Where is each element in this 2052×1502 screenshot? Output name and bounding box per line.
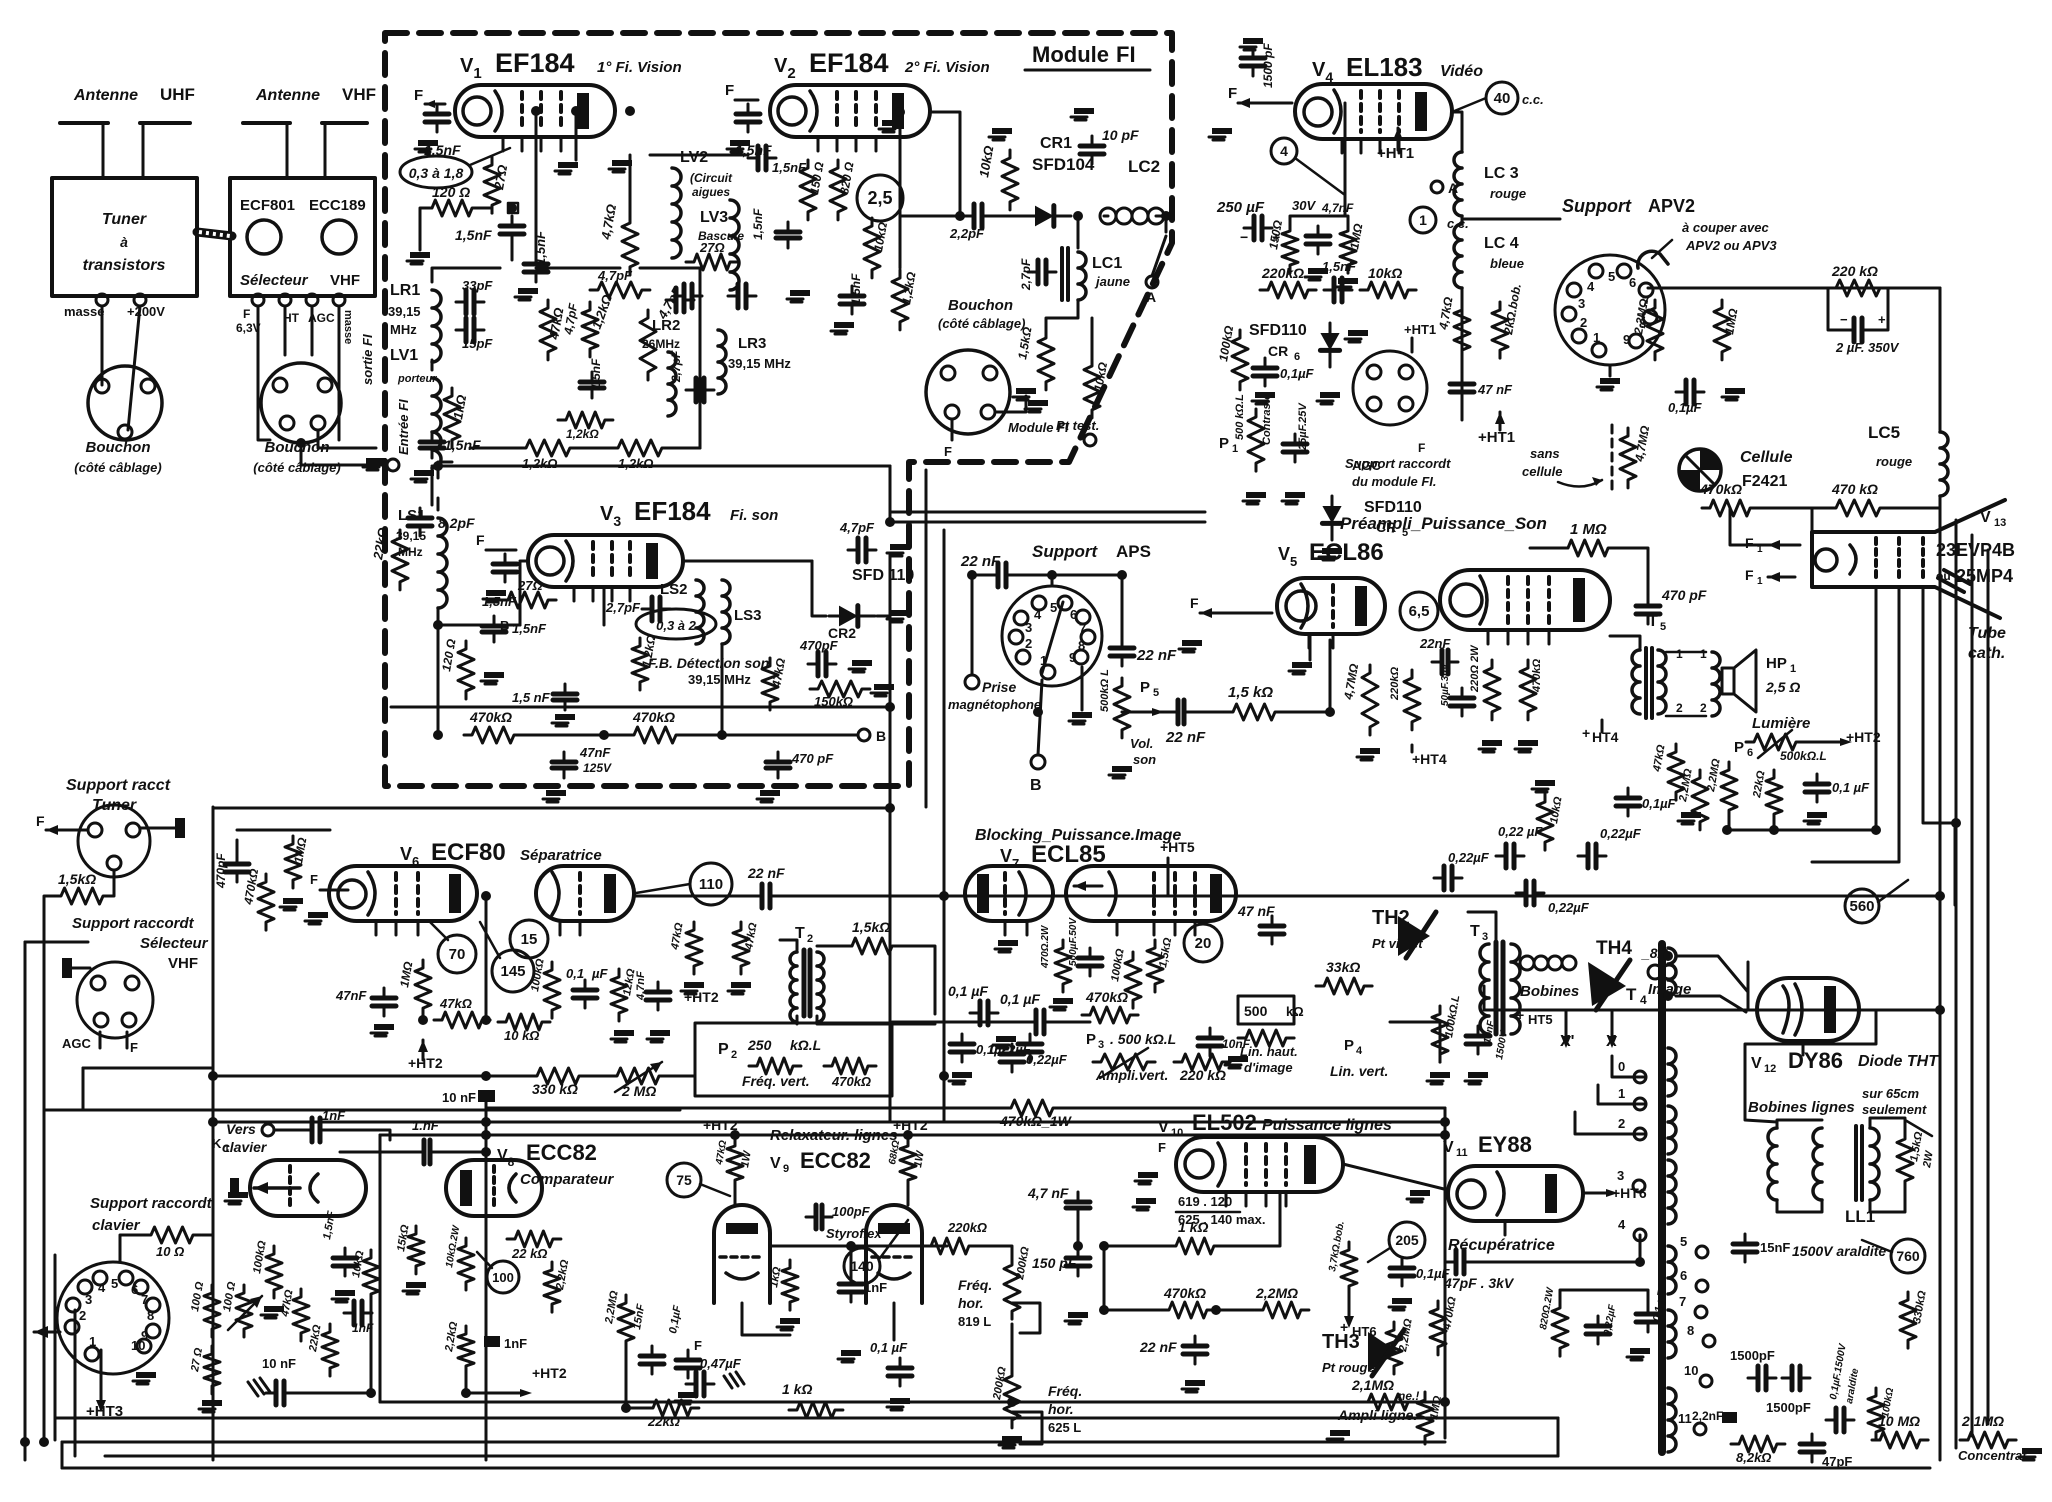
svg-text:son: son	[1133, 752, 1156, 767]
svg-text:220kΩ: 220kΩ	[1261, 265, 1304, 281]
socket selecteur VHF	[77, 962, 153, 1038]
resistor 47k lum	[1668, 744, 1684, 800]
ground P4	[1430, 1072, 1450, 1078]
junction dot 3	[481, 1071, 491, 1081]
resistor 8,2k	[1731, 1436, 1785, 1452]
capacitor 47nF V6	[383, 988, 386, 1016]
ground 1M V4	[1338, 278, 1358, 284]
ground CR5	[1322, 548, 1342, 554]
capacitor 0,1uF t5	[1627, 788, 1630, 816]
wire vert 55	[54, 1255, 57, 1440]
wire bmf gnd	[997, 396, 1026, 412]
junction dot 19	[1161, 211, 1171, 221]
svg-text:+HT2: +HT2	[1846, 729, 1881, 745]
diode CR5	[1322, 496, 1341, 540]
wire LC5 down	[1939, 496, 1942, 520]
value circle 145	[492, 950, 534, 992]
svg-text:P: P	[718, 1041, 729, 1058]
svg-text:6: 6	[1747, 747, 1753, 759]
svg-text:47pF . 3kV: 47pF . 3kV	[1443, 1275, 1515, 1291]
svg-text:1,5 nF: 1,5 nF	[512, 690, 551, 705]
value circle 65	[1400, 592, 1438, 630]
capacitor 1500pF a	[1748, 1377, 1776, 1380]
svg-text:8: 8	[147, 1308, 154, 1323]
resistor 470kohm b	[626, 727, 684, 743]
resistor 27ohm V3	[500, 592, 556, 608]
wire to 1k	[1104, 1245, 1168, 1248]
speaker HP1	[1722, 668, 1734, 694]
capacitor 1,5nF k3	[493, 616, 496, 642]
svg-text:ECC82: ECC82	[800, 1148, 871, 1173]
svg-text:magnétophone: magnétophone	[948, 697, 1041, 712]
resistor 10k 2W	[458, 1238, 474, 1290]
svg-text:6: 6	[1629, 275, 1636, 290]
wire bottom bus 1442	[62, 1441, 1445, 1444]
svg-text:sur 65cm: sur 65cm	[1862, 1086, 1920, 1101]
wire styroflex down	[850, 1246, 853, 1276]
wire 1076 left	[213, 1075, 529, 1078]
svg-text:2 MΩ: 2 MΩ	[621, 1083, 656, 1099]
svg-text:V: V	[1443, 1139, 1454, 1156]
capacitor 0,1uF T4	[1647, 1304, 1650, 1332]
svg-text:aigues: aigues	[692, 185, 730, 199]
junction dot 38	[1635, 1257, 1645, 1267]
junction dot 50	[1935, 891, 1945, 901]
socket support APS	[1002, 586, 1102, 686]
thyristor TH3	[1368, 1332, 1398, 1372]
junction dot 14	[531, 106, 541, 116]
svg-text:1 kΩ: 1 kΩ	[1178, 1219, 1208, 1235]
svg-text:25µF.25V: 25µF.25V	[1297, 402, 1309, 451]
svg-text:+HT5: +HT5	[1160, 839, 1195, 855]
junction dot 41	[1440, 1397, 1450, 1407]
ground T4 cluster	[1630, 1348, 1650, 1354]
svg-text:LC5: LC5	[1868, 423, 1900, 442]
svg-text:500kΩ.L: 500kΩ.L	[1780, 749, 1827, 763]
junction dot 53	[621, 1403, 631, 1413]
svg-text:Support: Support	[1562, 196, 1632, 216]
coax link tuner-selector	[197, 232, 232, 236]
ground 4,7M V5	[1360, 748, 1380, 754]
T3 secondary	[1511, 944, 1520, 1034]
wire 1,5k right	[900, 946, 935, 1014]
capacitor 0,1uF V9b	[687, 1350, 690, 1378]
junction dot 4	[481, 1117, 491, 1127]
svg-text:15nF: 15nF	[1760, 1240, 1790, 1255]
resistor 47k V6 b	[686, 922, 702, 974]
V12 second arc	[1783, 986, 1789, 1033]
ground V3 k	[484, 672, 504, 678]
pin masse	[96, 294, 108, 306]
selector pin 4	[333, 294, 345, 306]
svg-text:LS3: LS3	[734, 607, 762, 624]
junction dot 33	[1440, 1130, 1450, 1140]
resistor 1,5k V7	[1147, 940, 1163, 992]
resistor 2,2M APV2	[1647, 300, 1663, 360]
ground 1,5nF clavier	[335, 1290, 355, 1296]
capacitor 1,5nF clavier	[344, 1248, 347, 1276]
svg-text:220 kΩ: 220 kΩ	[1179, 1067, 1226, 1083]
wire vertical 213	[212, 807, 215, 1460]
wire V12 anode	[1745, 1010, 1876, 1122]
svg-text:CR1: CR1	[1040, 135, 1072, 152]
svg-text:0,1 µF: 0,1 µF	[870, 1340, 908, 1355]
wire 2,2M to 22k	[626, 1349, 645, 1408]
wire LL1 top	[1870, 1118, 1905, 1131]
wire F V3	[486, 549, 516, 552]
wire V1 g3	[575, 111, 578, 160]
ground 0,1uF CR6	[1255, 392, 1275, 398]
junction dot 40	[903, 1130, 913, 1140]
wire P2 right	[892, 1021, 1030, 1024]
junction dot 43	[1663, 951, 1673, 961]
capacitor 0,1uF CR6	[1264, 358, 1267, 386]
svg-text:1: 1	[1700, 647, 1707, 661]
svg-text:3: 3	[85, 1292, 92, 1307]
svg-text:Pt rouge: Pt rouge	[1322, 1360, 1375, 1375]
terminal B	[858, 729, 870, 741]
wire 470k to B	[684, 734, 858, 737]
capacitor 470pF V5	[1647, 596, 1650, 624]
svg-text:1,5nF: 1,5nF	[1322, 259, 1357, 274]
coil bobines lignes a	[1768, 1128, 1777, 1200]
junction dot 58	[1769, 825, 1779, 835]
svg-text:1500pF: 1500pF	[1766, 1400, 1811, 1415]
svg-text:1,2kΩ: 1,2kΩ	[522, 456, 557, 471]
T4 winding e	[1668, 1246, 1676, 1294]
coil LC1	[1078, 252, 1086, 300]
svg-text:13: 13	[1994, 517, 2006, 529]
wire V2 anode down2	[959, 152, 962, 216]
ground 22nF V10	[1185, 1380, 1205, 1386]
svg-text:transistors: transistors	[83, 257, 166, 274]
wire LC2 to LC1	[1077, 216, 1080, 248]
wire V3 anode	[683, 560, 812, 563]
svg-text:2,5: 2,5	[867, 188, 892, 208]
wire bus 807	[213, 807, 890, 810]
svg-text:LC 4: LC 4	[1484, 235, 1519, 252]
capacitor 470pF left	[236, 854, 239, 882]
svg-text:22 nF: 22 nF	[747, 865, 785, 881]
ground 47nF	[546, 790, 566, 796]
svg-text:CR: CR	[1268, 343, 1288, 359]
tube V6 pentode	[536, 866, 634, 921]
svg-text:150 pF: 150 pF	[1032, 1255, 1077, 1271]
wire V6 to 22nF	[634, 895, 756, 898]
ground 47k b	[684, 982, 704, 988]
capacitor 0,22uF T3	[1434, 877, 1462, 880]
wire 220k row	[770, 1245, 947, 1248]
svg-text:2,7pF: 2,7pF	[1019, 258, 1033, 291]
P2 box	[695, 1023, 892, 1096]
svg-text:Bobines lignes: Bobines lignes	[1748, 1099, 1855, 1116]
svg-text:1,5nF: 1,5nF	[512, 621, 547, 636]
resistor 27ohm clavier	[204, 1346, 220, 1394]
value circle 2,5	[857, 175, 903, 221]
svg-text:(côté câblage): (côté câblage)	[938, 316, 1025, 331]
capacitor 500uF 50V	[1089, 948, 1092, 976]
wire tap0	[1612, 1056, 1646, 1077]
junction dot 30	[1033, 707, 1043, 717]
svg-text:0,1µF: 0,1µF	[1642, 796, 1677, 811]
svg-text:T: T	[1648, 613, 1658, 630]
CRT gun circle	[1815, 549, 1837, 571]
ground V5 k	[1292, 662, 1312, 668]
svg-text:4: 4	[1280, 143, 1288, 159]
svg-text:4,7nF: 4,7nF	[1321, 201, 1354, 215]
resistor 120ohm	[424, 200, 480, 216]
resistor 150ohm V2k	[800, 160, 816, 220]
ground 0,1uF P2	[952, 1072, 972, 1078]
svg-text:15: 15	[521, 931, 538, 948]
wire F1a	[1768, 544, 1800, 547]
resistor 470k P2	[824, 1058, 876, 1074]
resistor 1M left	[285, 836, 301, 888]
tuner box	[52, 178, 197, 296]
ground 4,7nF	[1308, 268, 1328, 274]
capacitor 100pF styroflex	[806, 1216, 832, 1219]
svg-text:10: 10	[1684, 1363, 1698, 1378]
wire join 1558	[1557, 1418, 1560, 1456]
capacitor 470pF	[808, 663, 836, 666]
svg-text:1: 1	[1618, 1086, 1625, 1101]
resistor 120ohm V3	[458, 641, 474, 699]
svg-text:1,5nF: 1,5nF	[751, 208, 765, 240]
resistor 820ohm 2W	[1552, 1300, 1568, 1356]
potentiometer 2M	[609, 1068, 667, 1084]
ground V7	[998, 940, 1018, 946]
CRT grid1	[1874, 538, 1878, 582]
tube socket ECF801	[247, 220, 281, 254]
potentiometer 200k b	[1004, 1368, 1020, 1428]
svg-text:10 pF: 10 pF	[1102, 127, 1139, 143]
svg-text:Styroflex: Styroflex	[826, 1226, 882, 1241]
potentiometer 100ohm b	[236, 1285, 252, 1337]
wire 220k to 200k	[977, 1246, 1012, 1258]
thyristor TH2	[1398, 916, 1430, 956]
svg-text:LV2: LV2	[680, 149, 708, 166]
ground 10k top	[992, 128, 1012, 134]
socket APV2	[1555, 255, 1665, 365]
bouchon tuner	[88, 366, 162, 440]
u	[1676, 956, 1757, 1000]
prise circle	[965, 675, 979, 689]
svg-text:1nF: 1nF	[504, 1336, 527, 1351]
module FI dashed border	[385, 33, 1172, 786]
pointer 140	[880, 1220, 908, 1258]
svg-text:0,1µF: 0,1µF	[1668, 400, 1703, 415]
svg-text:2,2pF: 2,2pF	[949, 226, 985, 241]
core LC1	[1062, 248, 1068, 300]
svg-text:DY86: DY86	[1788, 1048, 1843, 1073]
svg-text:Bobines: Bobines	[1520, 983, 1579, 1000]
ground 1nF V9	[841, 1350, 861, 1356]
wire HT4 T5	[1601, 720, 1604, 732]
svg-text:Lin. vert.: Lin. vert.	[1330, 1063, 1388, 1079]
svg-text:10 Ω: 10 Ω	[156, 1244, 184, 1259]
wire 1M a	[1530, 547, 1560, 550]
ground 470pF b	[760, 790, 780, 796]
antenna UHF lead2	[140, 121, 190, 125]
resistor 3,7k bob	[1341, 1242, 1357, 1294]
svg-text:rouge: rouge	[1876, 454, 1912, 469]
ground 0,1uF V9b	[678, 1392, 698, 1398]
u	[102, 1443, 104, 1456]
svg-text:15pF: 15pF	[462, 336, 493, 351]
svg-text:Vers: Vers	[226, 1121, 256, 1137]
wire bottom bus 1456	[105, 1455, 1558, 1458]
bouchon module FI	[926, 350, 1010, 434]
svg-text:Bouchon: Bouchon	[86, 439, 151, 456]
svg-text:4,7 nF: 4,7 nF	[1027, 1185, 1069, 1201]
arrow F1a	[1768, 540, 1780, 550]
tube V7 a	[965, 866, 1053, 921]
svg-text:SFD 110: SFD 110	[852, 567, 914, 584]
svg-text:ECC82: ECC82	[526, 1140, 597, 1165]
value circle 110	[690, 863, 732, 905]
ground 27ohm	[202, 1400, 222, 1406]
svg-text:+HT2: +HT2	[893, 1117, 928, 1133]
wire vert 75	[74, 1310, 77, 1456]
wire relaxateur box top	[380, 1134, 1445, 1137]
junction dot 9	[885, 803, 895, 813]
capacitor 1nF K1	[302, 1129, 330, 1132]
svg-text:2: 2	[807, 933, 813, 945]
T4 winding g	[1668, 1388, 1676, 1452]
T4 tap 8	[1703, 1335, 1715, 1347]
capacitor 22nF V6	[752, 895, 780, 898]
wire 890 up	[889, 466, 892, 522]
bouchon2 pin4	[311, 416, 325, 430]
coil LC2	[1100, 208, 1116, 224]
capacitor 1,5nF g2	[851, 286, 854, 314]
T3 core	[1496, 942, 1503, 1034]
svg-text:2: 2	[1676, 701, 1683, 715]
ground 200k b	[1002, 1436, 1022, 1442]
svg-text:F: F	[1418, 441, 1425, 455]
svg-text:2 µF. 350V: 2 µF. 350V	[1835, 340, 1900, 355]
wire vertical 486	[485, 1093, 488, 1460]
svg-text:TH4: TH4	[1596, 938, 1632, 959]
wire cap down	[511, 244, 514, 260]
junction dot 42	[846, 1241, 856, 1251]
svg-text:Comparateur: Comparateur	[520, 1171, 615, 1188]
resistor 220k V5	[1404, 670, 1420, 730]
svg-text:1,2kΩ: 1,2kΩ	[618, 456, 653, 471]
junction dot 25	[599, 730, 609, 740]
resistor 470kohm a	[464, 727, 522, 743]
terminal B aps	[1031, 755, 1045, 769]
ground F V5	[1182, 640, 1202, 646]
svg-text:VHF: VHF	[342, 85, 376, 104]
resistor 10k clavier	[363, 1250, 379, 1302]
wire F sock	[46, 829, 88, 832]
svg-text:B: B	[1030, 777, 1042, 794]
junction dot 31	[1325, 707, 1335, 717]
resistor 2,2M lum	[1692, 770, 1708, 830]
T4 winding b	[1668, 1048, 1676, 1096]
capacitor 22nF APS	[988, 574, 1016, 577]
svg-text:7: 7	[1679, 1294, 1686, 1309]
svg-text:Lumière: Lumière	[1752, 715, 1810, 732]
svg-text:APV2 ou APV3: APV2 ou APV3	[1685, 238, 1777, 253]
wire 470k-F1	[1730, 508, 1768, 545]
svg-text:+HT2: +HT2	[703, 1117, 738, 1133]
wire right bus 3	[1971, 535, 1974, 1436]
wire anode up	[629, 155, 632, 215]
wire 200k a-b	[1011, 1324, 1014, 1368]
svg-text:22 nF: 22 nF	[1165, 729, 1206, 746]
wire coils top	[1777, 1120, 1822, 1128]
svg-text:1,5nF: 1,5nF	[455, 227, 492, 243]
potentiometer 500k lin haut	[1238, 1030, 1294, 1046]
svg-text:T: T	[1626, 985, 1637, 1004]
arrow HT6 V11	[1606, 1189, 1618, 1197]
svg-text:0,1 µF: 0,1 µF	[1000, 991, 1040, 1007]
cap 10nF blob	[478, 1090, 495, 1102]
svg-text:0: 0	[1618, 1059, 1625, 1074]
junction dot 2	[481, 1015, 491, 1025]
resistor 10k b	[1084, 358, 1100, 418]
capacitor 1500pF	[1252, 48, 1255, 76]
junction dot 21	[433, 461, 443, 471]
svg-text:40: 40	[1494, 90, 1511, 107]
ground 10pF	[1074, 108, 1094, 114]
u	[711, 561, 713, 602]
wire LC4 down	[1461, 288, 1464, 420]
resistor 1k b	[789, 1402, 843, 1418]
resistor 470k V5	[1520, 660, 1536, 720]
u	[1166, 1157, 1186, 1159]
wire V3 k down	[603, 587, 606, 625]
arrow F sock	[46, 825, 58, 835]
junction dot 51	[1935, 1005, 1945, 1015]
svg-text:Fréq.: Fréq.	[1048, 1383, 1082, 1399]
resistor 220ohm 2W	[1484, 660, 1500, 720]
ground V1 F cap	[418, 140, 438, 146]
wire lum bottom	[1727, 829, 1878, 832]
svg-text:HP: HP	[1766, 655, 1787, 672]
ground 47k lum	[1681, 812, 1701, 818]
junction dot 54	[1007, 1397, 1017, 1407]
svg-text:2,7pF: 2,7pF	[669, 350, 683, 383]
T4 core	[1658, 944, 1666, 1452]
svg-text:Prise: Prise	[982, 679, 1016, 695]
junction dot 5	[481, 1130, 491, 1140]
2M arrow	[615, 1062, 662, 1092]
svg-text:1,5nF: 1,5nF	[849, 273, 863, 305]
antenna VHF lead1	[243, 121, 290, 125]
wire V5 k	[1309, 634, 1312, 660]
tube V11 EY88	[1448, 1166, 1583, 1221]
resistor 100k clavier	[266, 1246, 282, 1298]
resistor 22k P6	[1766, 770, 1782, 822]
u	[1675, 806, 1940, 808]
capacitor 1,5nF mid	[591, 372, 594, 398]
junction dot 6	[481, 1147, 491, 1157]
capacitor 1,5nF g3	[564, 684, 567, 710]
u	[1612, 1185, 1645, 1187]
pointer 100	[477, 1252, 492, 1268]
junction dot 13	[507, 203, 517, 213]
svg-text:LR2: LR2	[652, 317, 680, 334]
wire cap up	[236, 840, 239, 856]
capacitor 1,5nF V1 k	[511, 216, 514, 244]
wire horiz 512	[890, 511, 1205, 514]
resistor 1kohm	[444, 388, 460, 448]
arrow X	[1607, 1036, 1617, 1048]
svg-text:9: 9	[783, 1163, 789, 1175]
